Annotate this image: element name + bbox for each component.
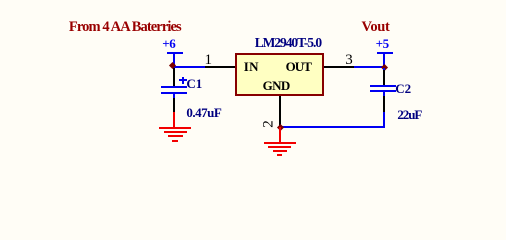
junction at C2 top node	[381, 64, 388, 71]
ground G2 bar3	[273, 150, 287, 152]
wire C2 bottom stub	[383, 92, 385, 96]
wire +6 stem	[173, 54, 175, 67]
pin 3 line	[324, 66, 354, 68]
capacitor C1 designator	[186, 76, 202, 92]
wire bottom horizontal	[279, 126, 385, 128]
capacitor C1 bottom plate	[161, 92, 187, 94]
ground G1 stem	[173, 112, 175, 127]
ground G2 bar2	[268, 146, 291, 148]
IC pin name IN	[244, 59, 259, 75]
ground G1 bar3	[168, 135, 183, 137]
ground G1 bar1	[159, 127, 191, 129]
IC pin name GND	[263, 78, 290, 94]
wire net +6 horizontal	[173, 66, 206, 68]
annotation text "Vout"	[362, 19, 390, 36]
pin 2 line	[279, 96, 281, 127]
capacitor C2 bottom pin	[383, 96, 385, 112]
op IC U1 body LM2940	[235, 53, 324, 96]
capacitor C1 value 0.47uF	[186, 105, 221, 121]
pin 2 number rotated	[261, 120, 278, 128]
ground G2 bar1	[264, 142, 296, 144]
junction at GND node	[276, 123, 283, 130]
capacitor C1 plus sign	[179, 79, 187, 81]
ground G1 bar4	[172, 140, 178, 142]
wire OUT to +5 node	[354, 66, 385, 68]
ground G2 stem	[279, 127, 281, 142]
wire C2 top stub	[383, 68, 385, 71]
capacitor C2 top plate	[370, 85, 396, 87]
IC title LM2940T-5.0	[255, 35, 321, 51]
capacitor C1 top pin	[173, 68, 175, 86]
ground G1 bar2	[164, 131, 187, 133]
ground G2 bar4	[277, 154, 283, 156]
capacitor C2 bottom plate	[370, 90, 396, 92]
pin 3 number	[345, 52, 353, 69]
power port +5 bar	[377, 52, 393, 54]
power port +5 label	[376, 36, 389, 52]
power port +6 label	[162, 36, 175, 52]
power port +6 bar	[167, 52, 183, 54]
pin 1 number	[205, 52, 213, 69]
pin 1 line	[205, 66, 235, 68]
wire C2 down segment	[383, 112, 385, 129]
annotation text "From 4 AA Baterries"	[69, 19, 181, 36]
junction at C1 top node	[169, 62, 176, 69]
capacitor C2 top pin	[383, 70, 385, 85]
capacitor C2 designator	[395, 81, 411, 97]
wire C1 bottom stub	[173, 94, 175, 98]
capacitor C1 bottom pin	[173, 98, 175, 112]
IC pin name OUT	[286, 59, 311, 75]
capacitor C2 value 22uF	[397, 107, 421, 123]
wire +5 stem	[383, 54, 385, 67]
capacitor C1 top plate	[161, 86, 187, 88]
